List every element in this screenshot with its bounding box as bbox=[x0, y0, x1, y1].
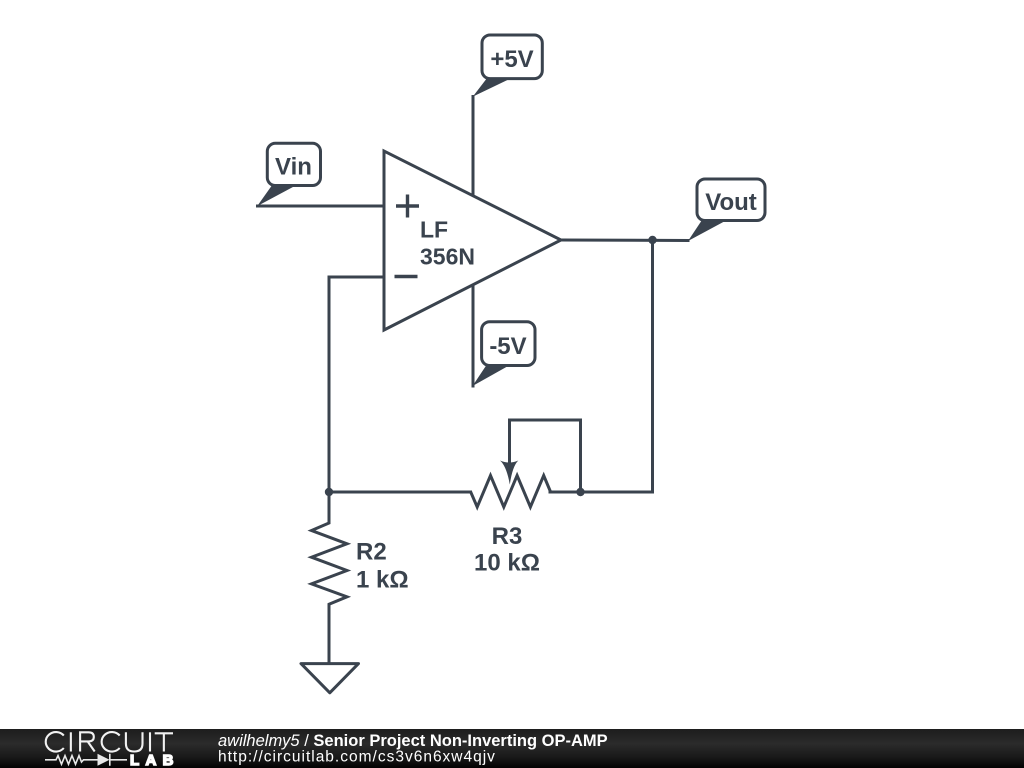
wiper arrowhead R3 bbox=[500, 461, 518, 485]
svg-text:10 kΩ: 10 kΩ bbox=[474, 550, 540, 577]
flag +5V bbox=[473, 35, 543, 97]
CircuitLab logo bbox=[46, 732, 180, 768]
svg-text:R3: R3 bbox=[492, 523, 523, 550]
resistor R3 (potentiometer) bbox=[471, 420, 581, 507]
wire output down to feedback bbox=[651, 240, 654, 492]
flag Vout bbox=[688, 179, 765, 241]
op-amp U1 bbox=[384, 151, 561, 330]
wire feedback row left bbox=[329, 491, 471, 494]
svg-text:1 kΩ: 1 kΩ bbox=[356, 567, 409, 594]
node wiper junction bbox=[576, 488, 584, 496]
wire Vin to noninverting input bbox=[258, 205, 385, 208]
svg-text:+5V: +5V bbox=[490, 46, 533, 73]
pin + (non-inverting input) bbox=[396, 195, 419, 218]
node output junction bbox=[648, 236, 656, 244]
wire feedback row right bbox=[550, 491, 653, 494]
wiper box bbox=[510, 420, 581, 492]
svg-text:LAB: LAB bbox=[130, 752, 180, 768]
flag Vin bbox=[257, 143, 320, 206]
flag -5V bbox=[473, 322, 536, 386]
svg-text:LF: LF bbox=[420, 217, 448, 243]
wire inverting input feedback left bbox=[329, 277, 384, 492]
svg-text:R2: R2 bbox=[356, 539, 387, 566]
svg-text:awilhelmy5 / Senior Project No: awilhelmy5 / Senior Project Non-Invertin… bbox=[218, 732, 608, 750]
svg-text:Vout: Vout bbox=[705, 189, 757, 216]
svg-text:356N: 356N bbox=[420, 244, 475, 270]
logo resistor-diode glyph bbox=[45, 754, 127, 766]
ground bbox=[301, 664, 359, 693]
resistor R2 bbox=[312, 492, 348, 663]
svg-text:http://circuitlab.com/cs3v6n6x: http://circuitlab.com/cs3v6n6xw4qjv bbox=[218, 749, 496, 766]
wire -5V supply bbox=[472, 285, 475, 386]
footer bar bbox=[0, 729, 1024, 768]
pin - (inverting input) bbox=[395, 275, 418, 278]
svg-text:-5V: -5V bbox=[489, 333, 526, 360]
svg-text:Vin: Vin bbox=[275, 154, 312, 181]
wire output to Vout bbox=[561, 239, 688, 243]
wire +5V supply bbox=[472, 97, 475, 197]
node feedback left junction bbox=[325, 488, 333, 496]
